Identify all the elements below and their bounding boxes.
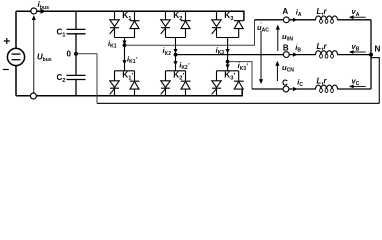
wire: bottom bar of upper pair K1 xyxy=(115,37,135,39)
svg-text:N: N xyxy=(375,44,381,53)
svg-text:A: A xyxy=(282,7,288,16)
wire: mid vertical to lower pair with current arrow i_K1' xyxy=(124,45,126,71)
voltage arrow u_CN (points up toward B row) xyxy=(276,62,278,81)
node: bottom-left terminal circle xyxy=(30,93,36,99)
svg-text:B: B xyxy=(283,43,289,52)
node: top-left terminal circle xyxy=(31,8,37,14)
label u_AC xyxy=(257,23,273,31)
voltage arrow u_AC (from A line down to C line) xyxy=(260,23,262,84)
wire: mid vertical to lower pair with current arrow i_K3' xyxy=(227,62,229,71)
thyristor K3' (lower switch) xyxy=(212,71,222,96)
wire: mid vertical to lower pair with current arrow i_K2' xyxy=(175,55,177,71)
thyristor K2' (lower switch) xyxy=(161,71,171,96)
capacitor C1 xyxy=(67,11,86,54)
wire: top bar of lower pair K3' xyxy=(217,70,239,72)
wire: phase-leg mid vertical with current arrow i_K1 xyxy=(124,38,126,46)
thyristor K1' (lower switch) xyxy=(110,71,120,96)
wire: leg3 phase line to C riser xyxy=(228,62,252,89)
node A: terminal circle xyxy=(283,17,289,23)
current arrow i_B xyxy=(293,53,298,57)
wire: top bar of lower pair K1' xyxy=(115,70,135,72)
diode D2 (antiparallel, upper) xyxy=(181,11,191,37)
node: phase node of leg 1 (junction dot) xyxy=(123,43,127,47)
node 0 (capacitor midpoint, junction dot) xyxy=(74,52,78,56)
wire: bottom dc rail with end stub to leg3 lower diode xyxy=(16,89,242,96)
node: N junction dot xyxy=(369,53,373,57)
svg-text:0: 0 xyxy=(67,49,72,58)
label + (source plus) xyxy=(4,38,10,44)
voltage arrow v_A (points left) xyxy=(351,16,366,18)
wire: source negative lead down to bottom rail xyxy=(15,66,17,96)
voltage arrow v_B (points left) xyxy=(351,51,366,53)
wire: bottom bar of upper pair K3 xyxy=(217,37,239,39)
node C: terminal circle xyxy=(283,86,289,92)
node: phase node of leg 3 (junction dot) xyxy=(226,60,230,64)
current arrow i_bus on top rail xyxy=(40,9,46,14)
diode D1 (antiparallel, upper) xyxy=(130,11,140,37)
wire: phase-leg mid vertical with current arrow i_K3 xyxy=(227,38,229,62)
wire: neutral link from node 0 down to bottom neutral run xyxy=(76,54,97,104)
wire: phase A row xyxy=(255,19,372,21)
wire: phase-leg mid vertical with current arrow i_K2 xyxy=(175,38,177,55)
wire: bottom bar of upper pair K2 xyxy=(166,37,186,39)
wire: bottom neutral run to the right side xyxy=(97,102,379,104)
node B: terminal circle xyxy=(283,52,289,58)
inductor L,r phase C xyxy=(316,84,337,94)
node: phase node of leg 2 (junction dot) xyxy=(174,53,178,57)
inductor L,r phase A xyxy=(316,15,337,25)
wire: neutral riser up to N xyxy=(371,58,379,104)
capacitor C2 xyxy=(67,54,86,96)
thyristor K2 (upper switch) xyxy=(161,11,171,37)
wire: N bus bar at right xyxy=(370,20,372,89)
dc source U_bus xyxy=(7,48,24,65)
thyristor K1 (upper switch) xyxy=(110,11,120,37)
inductor L,r phase B xyxy=(316,49,337,59)
current arrow i_A xyxy=(293,18,298,22)
wire: top dc rail with end stub to leg3 diode xyxy=(16,11,244,21)
wire: phase C row xyxy=(252,88,371,90)
label - (source minus) xyxy=(3,69,9,71)
wire: leg1 phase line to A riser xyxy=(125,20,255,46)
wire: source positive lead up to top rail xyxy=(15,11,17,48)
thyristor K3 (upper switch) xyxy=(212,11,222,37)
svg-text:C: C xyxy=(282,79,288,88)
diode D3 (antiparallel, upper) xyxy=(234,21,244,38)
voltage arrow U_bus (points up) xyxy=(33,16,35,93)
wire: phase B row from leg2 node xyxy=(176,54,372,56)
diode D3' (antiparallel, lower) xyxy=(234,71,244,89)
svg-text:L,r: L,r xyxy=(317,7,328,16)
current arrow i_C xyxy=(293,87,298,91)
svg-text:L,r: L,r xyxy=(317,76,328,85)
voltage arrow v_C (points left) xyxy=(351,85,366,87)
diode D2' (antiparallel, lower) xyxy=(181,71,191,96)
svg-text:L,r: L,r xyxy=(317,42,328,51)
wire: top bar of lower pair K2' xyxy=(166,70,186,72)
voltage arrow u_0N (points up toward A row) xyxy=(277,26,279,51)
diode D1' (antiparallel, lower) xyxy=(130,71,140,96)
